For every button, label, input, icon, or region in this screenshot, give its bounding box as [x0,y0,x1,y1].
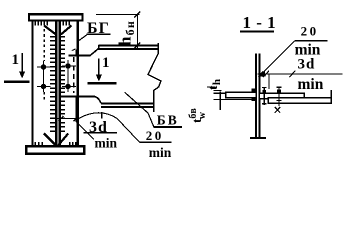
section dim tick 1 [263,71,269,78]
bolt column left axis [43,61,45,92]
3d leader [76,122,94,140]
bolt row lines left [37,66,51,68]
section bolt 1 [263,87,265,105]
svg-text:3d: 3d [298,56,316,72]
section mark 1 left: arrow [21,53,23,74]
section: web bottom foot [250,137,266,139]
hidden edge dashed right (beam web end) [73,57,75,93]
beam БВ top flange lower line [98,48,158,50]
svg-text:БВ: БВ [157,112,179,127]
svg-text:min: min [149,145,172,160]
svg-text:min: min [298,76,324,93]
weld ticks above bottom flange right [70,142,76,145]
label h_bn [116,20,138,46]
weld ticks under top flange right [63,22,69,26]
section 20 leader [258,41,295,77]
section bolt 2 [278,87,280,107]
label БВ underline [154,126,182,128]
svg-text:20: 20 [301,24,319,39]
section: thin dim line upper [207,86,215,88]
weld ladder rungs on girder web [50,37,65,132]
label БГ leader [78,35,88,42]
weld V seam at web top [44,26,72,35]
3d fraction bar [84,132,118,134]
section dim arrow at web [258,71,265,76]
gap dim 3d upper tick [75,49,77,55]
svg-text:1: 1 [102,55,110,71]
svg-text:1: 1 [12,52,20,68]
dimension h_bn line [136,14,138,51]
section: girder web left line [255,54,257,139]
20 fraction bar [140,141,172,143]
beam break line [148,43,161,112]
svg-text:min: min [95,136,118,151]
main girder БГ bottom flange plate [26,146,84,153]
bolt column right axis [67,60,69,92]
20 section fraction bar [295,40,328,42]
stiffener left edge [31,22,33,146]
section: right stiffener plate [259,93,304,99]
section bolt at web left [251,88,255,101]
weld ticks under top flange left [35,22,47,26]
label БВ leader [125,92,154,127]
section mark 1 on beam: arrow [98,59,100,77]
beam БВ top flange start cap [98,45,100,49]
bolt right top [65,63,70,68]
label t_w bv [188,108,208,123]
beam БВ bottom bevel [95,97,101,103]
label t_h [205,79,223,90]
beam БВ bottom flange upper line [101,102,154,104]
weld ticks above bottom flange left [35,142,42,145]
gap dim 3d extension line [75,97,77,122]
weld V seam at web bottom [44,134,68,146]
bolt right bottom [65,84,70,89]
main girder БГ top flange [29,14,83,20]
bolt row lines right [62,65,76,67]
beam БВ bottom web cut [59,96,95,98]
beam БВ bottom flange lower line [101,106,154,108]
beam БВ top flange upper line [98,44,158,46]
section mark 1 on beam: trace line [87,82,116,85]
dimension h_bn tick top [134,12,140,18]
section dim tick 2 [289,71,295,78]
section mark 1 left: trace line [4,80,29,83]
section dim ext down [268,74,270,89]
label БГ underline [87,33,111,35]
girder web line right [59,22,62,146]
section: girder web right line [258,54,260,139]
section: left beam web plate [226,92,256,98]
section: right beam web end cap [330,90,332,104]
bolt 2 cross mark [275,107,280,113]
hidden edge dashed left [43,29,45,61]
gap dim 3d line [56,117,79,119]
section: thin dim line lower [214,89,222,91]
section title underline [240,30,274,32]
stiffener right edge [76,22,78,146]
dimension h_bn tick bottom [134,43,140,49]
section: lower thin line [214,98,257,100]
section: right beam web plate [268,98,331,104]
svg-text:20: 20 [146,128,164,143]
section: t_h connector [219,92,221,111]
girder web line left [55,22,58,146]
bolt left top [41,64,46,69]
section dim long line [258,73,343,75]
bolt left bottom [41,84,46,89]
dimension h_bn extension line [96,14,140,16]
beam БВ top bevel [90,49,98,56]
svg-text:1 - 1: 1 - 1 [243,13,277,32]
beam БВ top web cut [69,55,91,57]
section: extension of plate top [214,92,225,94]
20 leader hump over 3d [79,113,117,119]
